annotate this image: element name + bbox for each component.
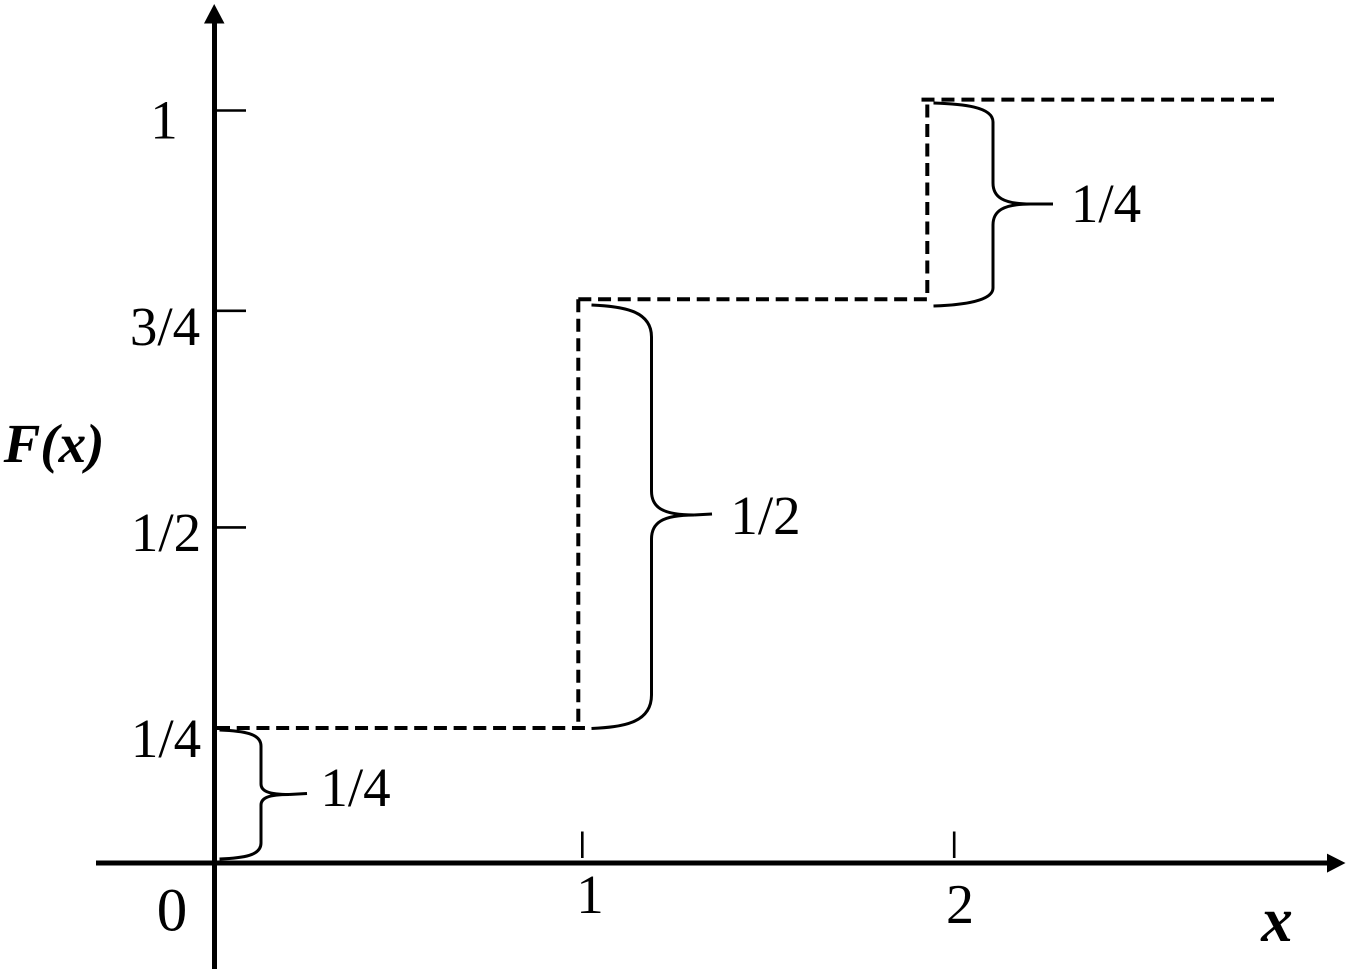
x-axis shaft bbox=[96, 861, 1329, 866]
svg-text:F(x): F(x) bbox=[3, 413, 105, 474]
brace for jump 1/4 at x=2 bbox=[934, 103, 1031, 306]
svg-text:1/4: 1/4 bbox=[131, 708, 201, 769]
dashed step: vertical at x=2 from 3/4 to 1 bbox=[925, 100, 929, 293]
svg-text:1/2: 1/2 bbox=[730, 485, 800, 546]
x tick at 1 bbox=[581, 832, 584, 859]
dashed step: horizontal at F=3/4 from x=1 to x=2 bbox=[578, 297, 927, 301]
connector to 1/2 label at x=1 bbox=[694, 514, 712, 515]
svg-text:1/2: 1/2 bbox=[131, 502, 201, 563]
y tick at 3/4 bbox=[217, 309, 246, 312]
dashed step: horizontal at F=1 from x=2 rightward bbox=[922, 98, 1275, 102]
x-axis arrowhead bbox=[1327, 854, 1346, 873]
svg-text:1: 1 bbox=[150, 90, 178, 151]
dashed step: vertical at x=1 from 1/4 to 3/4 bbox=[576, 299, 580, 724]
connector to 1/4 label at x=0 bbox=[289, 794, 307, 795]
y tick at 1/2 bbox=[217, 526, 246, 529]
svg-text:2: 2 bbox=[946, 874, 974, 936]
svg-text:1/4: 1/4 bbox=[320, 757, 390, 818]
svg-text:3/4: 3/4 bbox=[130, 296, 200, 357]
svg-text:x: x bbox=[1260, 885, 1293, 955]
svg-text:0: 0 bbox=[157, 878, 188, 945]
y-axis shaft bbox=[212, 18, 217, 969]
svg-text:1: 1 bbox=[576, 864, 604, 925]
svg-text:1/4: 1/4 bbox=[1071, 173, 1141, 234]
y-axis arrowhead bbox=[204, 4, 225, 24]
y tick at 1 bbox=[217, 109, 246, 112]
dashed step: horizontal at F=1/4 from y-axis to x=1 bbox=[217, 726, 585, 730]
brace for jump 1/2 at x=1 bbox=[592, 305, 695, 729]
x tick at 2 bbox=[953, 832, 956, 859]
connector to 1/4 label at x=2 bbox=[1031, 203, 1054, 206]
brace for jump 1/4 at x=0 bbox=[220, 730, 290, 859]
